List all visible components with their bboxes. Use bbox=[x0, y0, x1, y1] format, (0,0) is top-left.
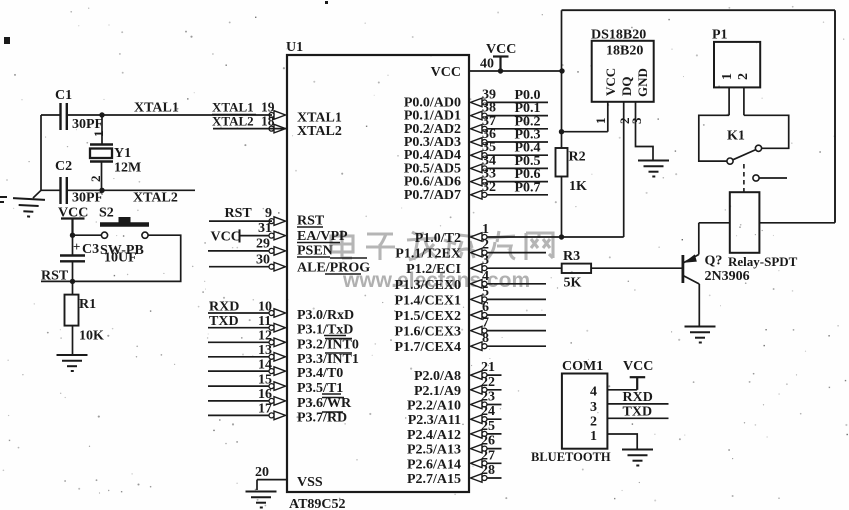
svg-text:C2: C2 bbox=[55, 159, 72, 174]
U1 P1.6 pin arrow (pin 7) bbox=[471, 326, 488, 335]
svg-text:P3.3/INT1: P3.3/INT1 bbox=[297, 352, 359, 367]
svg-text:30: 30 bbox=[256, 253, 270, 268]
U1 P1.3 pin arrow (pin 4) bbox=[471, 280, 488, 289]
capacitor C1 bbox=[61, 103, 67, 130]
svg-text:P1.1/T2EX: P1.1/T2EX bbox=[395, 247, 461, 262]
U1 PSEN pin arrow (pin 29) bbox=[269, 247, 286, 256]
capacitor C3 electrolytic bbox=[60, 256, 85, 262]
U1 P3.5 pin arrow (pin 15) bbox=[269, 382, 286, 391]
ground symbol COM1 bbox=[622, 450, 653, 466]
K1 common contact bbox=[727, 158, 733, 164]
wire stub U1 pin 13 (P3.3) bbox=[208, 356, 272, 358]
switch K1 contact frame left bbox=[699, 115, 729, 161]
wire stub U1 pin 8 (P1.7) bbox=[482, 345, 546, 347]
wire relay coil left to transistor bbox=[699, 222, 730, 224]
svg-text:27: 27 bbox=[481, 448, 495, 463]
wire right side of relay loop bbox=[834, 10, 836, 223]
svg-text:GND: GND bbox=[635, 68, 650, 97]
junction XTAL1-crystal bbox=[99, 112, 104, 117]
capacitor C2 bbox=[61, 177, 67, 204]
svg-text:P1.7/CEX4: P1.7/CEX4 bbox=[395, 340, 462, 355]
wire top of relay loop bbox=[562, 9, 836, 11]
svg-text:30PF: 30PF bbox=[72, 191, 103, 206]
switch K1 contact frame right bbox=[744, 115, 789, 148]
svg-text:U1: U1 bbox=[286, 40, 303, 55]
svg-text:P3.0/RxD: P3.0/RxD bbox=[297, 308, 354, 323]
wire stub U1 pin 32 net P0.7 bbox=[482, 194, 548, 196]
U1 P0.5 pin arrow (pin 34) bbox=[471, 164, 488, 173]
wire stub U1 pin 17 (P3.7) bbox=[208, 414, 272, 416]
wire stub U1 pin 29 PSEN bbox=[208, 250, 272, 252]
K1 NC contact bbox=[755, 145, 761, 151]
junction VCC-S2-C3 bbox=[70, 233, 75, 238]
svg-text:Q?: Q? bbox=[705, 254, 723, 269]
wire XTAL1 net (C1 to U1 pin 19) bbox=[67, 114, 273, 116]
U1 P0.1 pin arrow (pin 38) bbox=[471, 111, 488, 120]
svg-text:3: 3 bbox=[590, 400, 597, 415]
wire C1 left lead bbox=[41, 114, 61, 116]
svg-text:9: 9 bbox=[265, 206, 272, 221]
svg-text:+: + bbox=[73, 239, 80, 254]
wire relay coil right to loop bbox=[759, 222, 835, 224]
U1 P3.4 pin arrow (pin 14) bbox=[269, 367, 286, 376]
U1 P3.2 pin arrow (pin 12) bbox=[269, 338, 286, 347]
wire VSS down to ground bbox=[256, 480, 258, 490]
resistor R3 bbox=[562, 264, 591, 273]
svg-text:P2.4/A12: P2.4/A12 bbox=[407, 428, 461, 443]
wire stub U1 pin 27 (P2.6) bbox=[482, 462, 502, 464]
svg-text:XTAL1: XTAL1 bbox=[212, 100, 254, 115]
wire stub U1 pin 2 (P1.1) bbox=[482, 252, 546, 254]
svg-text:5: 5 bbox=[482, 284, 489, 299]
svg-text:VCC: VCC bbox=[623, 359, 653, 374]
svg-text:1K: 1K bbox=[569, 179, 587, 194]
negation bars on P3 labels bbox=[322, 336, 352, 413]
svg-text:31: 31 bbox=[258, 221, 272, 236]
U1 P0.4 pin arrow (pin 35) bbox=[471, 151, 488, 160]
wire stub U1 pin 28 (P2.7) bbox=[482, 477, 502, 479]
DS18B20 pin 3 lead to ground bbox=[636, 102, 654, 160]
svg-text:1: 1 bbox=[720, 73, 735, 80]
svg-text:VCC: VCC bbox=[603, 68, 618, 96]
U1 P3.3 pin arrow (pin 13) bbox=[269, 353, 286, 362]
svg-text:RXD: RXD bbox=[623, 390, 653, 405]
svg-text:P2.1/A9: P2.1/A9 bbox=[414, 384, 461, 399]
left rail C1-C2 to ground bbox=[40, 115, 42, 190]
svg-text:P3.4/T0: P3.4/T0 bbox=[297, 366, 343, 381]
U1 P0.6 pin arrow (pin 33) bbox=[471, 177, 488, 186]
wire stub U1 pin 36 net P0.3 bbox=[482, 141, 548, 143]
wire stub U1 pin 23 (P2.2) bbox=[482, 404, 502, 406]
svg-text:3: 3 bbox=[482, 253, 489, 268]
U1 P0.0 pin arrow (pin 39) bbox=[471, 98, 488, 107]
svg-text:17: 17 bbox=[258, 402, 272, 417]
U1 P0.7 pin arrow (pin 32) bbox=[471, 191, 488, 200]
svg-text:1: 1 bbox=[482, 222, 489, 237]
U1 XTAL2 pin arrow (pin 18) bbox=[269, 124, 286, 133]
relay coil Relay-SPDT body bbox=[730, 192, 760, 253]
svg-text:P2.6/A14: P2.6/A14 bbox=[407, 457, 461, 472]
svg-text:P1: P1 bbox=[712, 28, 728, 43]
wire VCC pin 40 of U1 bbox=[469, 70, 562, 72]
U1 P1.2 pin arrow (pin 3) bbox=[471, 264, 488, 273]
wire COM1 pin1 to ground bbox=[607, 434, 637, 449]
svg-text:10UF: 10UF bbox=[104, 251, 137, 266]
svg-text:BLUETOOTH: BLUETOOTH bbox=[531, 450, 611, 464]
resistor R2 bbox=[556, 148, 568, 177]
svg-text:2: 2 bbox=[590, 415, 597, 430]
svg-text:P2.0/A8: P2.0/A8 bbox=[414, 369, 461, 384]
svg-text:P1.3/CEX0: P1.3/CEX0 bbox=[395, 278, 462, 293]
svg-text:R2: R2 bbox=[569, 150, 586, 165]
svg-text:P1.2/ECI: P1.2/ECI bbox=[406, 262, 461, 277]
svg-text:P2.3/A11: P2.3/A11 bbox=[408, 413, 461, 428]
VCC rail vertical (R2 pullup rail) bbox=[561, 10, 563, 148]
wire COM1 pin4 to VCC bbox=[607, 389, 637, 391]
wire stub U1 pin 35 net P0.4 bbox=[482, 154, 548, 156]
svg-text:2: 2 bbox=[482, 238, 489, 253]
U1 P2.7 pin arrow (pin 28) bbox=[471, 474, 488, 483]
svg-text:P1.0/T2: P1.0/T2 bbox=[415, 231, 461, 246]
wire VCC to U1 pin 31 bbox=[240, 235, 273, 237]
svg-text:P3.2/INT0: P3.2/INT0 bbox=[297, 337, 359, 352]
wire stub U1 pin 15 (P3.5) bbox=[208, 385, 272, 387]
wire RST stub to U1 pin 9 bbox=[209, 220, 272, 222]
VCC power symbol at COM1 bbox=[630, 377, 646, 390]
wire R2 bottom to DQ node bbox=[561, 177, 563, 238]
wire stub U1 pin 14 (P3.4) bbox=[208, 370, 272, 372]
wire VCC to switch S2 bbox=[73, 234, 102, 236]
svg-text:TXD: TXD bbox=[209, 314, 239, 329]
junction R2 top wire to DS18B20 pin1 bbox=[559, 129, 564, 134]
svg-text:XTAL1: XTAL1 bbox=[134, 101, 179, 116]
U1 P3.7 pin arrow (pin 17) bbox=[269, 411, 286, 420]
wire stub U1 pin 11 (P3.1) bbox=[208, 327, 272, 329]
scan speck marks bbox=[0, 1, 328, 203]
wire COM1 pin2 TXD bbox=[607, 417, 668, 419]
U1 P1.4 pin arrow (pin 5) bbox=[471, 295, 488, 304]
VCC power symbol at pin 40 bbox=[493, 57, 509, 72]
U1 P3.1 pin arrow (pin 11) bbox=[269, 323, 286, 332]
svg-text:VSS: VSS bbox=[297, 475, 323, 490]
wire COM1 pin3 RXD bbox=[607, 403, 668, 405]
svg-text:RXD: RXD bbox=[209, 299, 239, 314]
svg-text:P1.5/CEX2: P1.5/CEX2 bbox=[395, 309, 462, 324]
wire stub U1 pin 21 (P2.0) bbox=[482, 374, 502, 376]
U1 P2.4 pin arrow (pin 25) bbox=[471, 430, 488, 439]
svg-text:P0.7/AD7: P0.7/AD7 bbox=[404, 188, 461, 203]
svg-text:VCC: VCC bbox=[211, 230, 241, 245]
svg-text:15: 15 bbox=[258, 372, 272, 387]
U1 P3.0 pin arrow (pin 10) bbox=[269, 309, 286, 318]
svg-text:Y1: Y1 bbox=[114, 146, 131, 161]
svg-text:R3: R3 bbox=[563, 249, 580, 264]
ground symbol reset bbox=[57, 355, 88, 371]
wire stub U1 pin 37 net P0.2 bbox=[482, 128, 548, 130]
wire stub U1 pin 5 (P1.4) bbox=[482, 298, 546, 300]
svg-text:20: 20 bbox=[255, 465, 269, 480]
svg-text:C1: C1 bbox=[55, 88, 72, 103]
svg-text:25: 25 bbox=[481, 419, 495, 434]
wire stub U1 pin 22 (P2.1) bbox=[482, 389, 502, 391]
wire stub U1 pin 33 net P0.6 bbox=[482, 181, 548, 183]
svg-text:P2.2/A10: P2.2/A10 bbox=[407, 399, 461, 414]
wire P1 pin1 lead bbox=[728, 87, 730, 115]
U1 ALE/PROG pin arrow (pin 30) bbox=[269, 262, 286, 271]
svg-text:S2: S2 bbox=[99, 206, 114, 221]
resistor R1 bbox=[72, 281, 74, 294]
U1 P1.1 pin arrow (pin 2) bbox=[471, 248, 488, 257]
svg-text:21: 21 bbox=[481, 360, 495, 375]
ground symbol at VSS bbox=[246, 492, 277, 508]
DS18B20 pin 2 lead (DQ) down to P1.0 wire bbox=[623, 102, 625, 237]
wire stub U1 pin 12 (P3.2) bbox=[208, 341, 272, 343]
svg-text:16: 16 bbox=[258, 387, 272, 402]
switch S2 push-button bbox=[100, 218, 149, 239]
svg-text:8: 8 bbox=[482, 331, 489, 346]
U1 P2.6 pin arrow (pin 27) bbox=[471, 459, 488, 468]
wire stub U1 pin 38 net P0.1 bbox=[482, 115, 548, 117]
wire stub U1 pin 20 VSS bbox=[257, 479, 287, 481]
junction XTAL2-crystal bbox=[99, 188, 104, 193]
svg-text:VCC: VCC bbox=[486, 42, 516, 57]
wire R3 to Q base bbox=[591, 267, 681, 269]
svg-text:10: 10 bbox=[258, 299, 272, 314]
ground symbol crystal caps bbox=[12, 198, 45, 217]
junction VCC rail bbox=[559, 68, 564, 73]
op-amp U1 body (AT89C52 MCU rectangle) bbox=[287, 55, 469, 492]
U1 P1.5 pin arrow (pin 6) bbox=[471, 311, 488, 320]
svg-text:32: 32 bbox=[482, 180, 496, 195]
wire stub U1 pin 26 (P2.5) bbox=[482, 448, 502, 450]
svg-text:18: 18 bbox=[261, 114, 275, 129]
wire stub U1 pin 34 net P0.5 bbox=[482, 167, 548, 169]
svg-text:40: 40 bbox=[480, 57, 494, 72]
wire C2 left lead bbox=[41, 189, 61, 191]
svg-text:XTAL2: XTAL2 bbox=[297, 124, 342, 139]
svg-text:VCC: VCC bbox=[431, 65, 461, 80]
U1 XTAL1 pin arrow (pin 19) bbox=[269, 111, 286, 120]
U1 P2.1 pin arrow (pin 22) bbox=[471, 386, 488, 395]
transistor Q? 2N3906 bbox=[683, 223, 699, 326]
wire stub U1 pin 1 (P1.0) bbox=[482, 236, 624, 238]
svg-text:P1.4/CEX1: P1.4/CEX1 bbox=[395, 293, 462, 308]
svg-text:2: 2 bbox=[736, 73, 751, 80]
wire stub U1 pin 24 (P2.3) bbox=[482, 418, 502, 420]
svg-text:26: 26 bbox=[481, 434, 495, 449]
svg-text:P2.7/A15: P2.7/A15 bbox=[407, 472, 461, 487]
svg-text:23: 23 bbox=[481, 390, 495, 405]
wire stub U1 pin 25 (P2.4) bbox=[482, 433, 502, 435]
svg-text:30PF: 30PF bbox=[72, 117, 103, 132]
wire S2 right side loop to RST bbox=[41, 235, 181, 281]
sensor DS18B20 body bbox=[592, 41, 654, 102]
connector P1 body bbox=[714, 42, 760, 88]
svg-text:10K: 10K bbox=[79, 329, 104, 344]
wire stub U1 pin 30 ALE/PROG bbox=[209, 266, 272, 268]
wire stub U1 pin 6 (P1.5) bbox=[482, 314, 546, 316]
svg-text:TXD: TXD bbox=[623, 405, 653, 420]
svg-text:12: 12 bbox=[258, 329, 272, 344]
svg-text:1: 1 bbox=[590, 429, 597, 444]
ground symbol DS18B20 bbox=[638, 161, 669, 177]
svg-text:4: 4 bbox=[590, 385, 597, 400]
svg-text:13: 13 bbox=[258, 343, 272, 358]
svg-text:P2.5/A13: P2.5/A13 bbox=[407, 443, 461, 458]
crystal Y1 bbox=[90, 115, 113, 190]
junction at VCC symbol bbox=[498, 68, 503, 73]
svg-text:24: 24 bbox=[481, 404, 495, 419]
svg-text:1: 1 bbox=[593, 118, 608, 125]
svg-text:RST: RST bbox=[225, 206, 253, 221]
svg-text:DQ: DQ bbox=[619, 77, 634, 97]
U1 P1.0 pin arrow (pin 1) bbox=[471, 233, 488, 242]
svg-text:22: 22 bbox=[481, 375, 495, 390]
U1 P1.7 pin arrow (pin 8) bbox=[471, 342, 488, 351]
svg-text:6: 6 bbox=[482, 300, 489, 315]
svg-text:3: 3 bbox=[629, 117, 644, 124]
wire R1 to ground bbox=[72, 326, 74, 354]
svg-text:C3: C3 bbox=[82, 242, 99, 257]
U1 P0.3 pin arrow (pin 36) bbox=[471, 138, 488, 147]
svg-text:P0.7: P0.7 bbox=[515, 180, 541, 195]
DS18B20 pin 1 lead bbox=[607, 102, 609, 132]
svg-text:R1: R1 bbox=[79, 297, 96, 312]
svg-text:5K: 5K bbox=[564, 276, 582, 291]
svg-text:1: 1 bbox=[91, 131, 106, 138]
wire VCC to DS18B20 pin 1 bbox=[562, 131, 608, 133]
svg-text:COM1: COM1 bbox=[562, 359, 603, 374]
svg-text:14: 14 bbox=[258, 357, 272, 372]
wire P1 pin2 lead bbox=[743, 87, 745, 115]
svg-text:RST: RST bbox=[41, 269, 69, 284]
svg-text:4: 4 bbox=[482, 269, 489, 284]
svg-text:P1.6/CEX3: P1.6/CEX3 bbox=[395, 325, 462, 340]
U1 P3.6 pin arrow (pin 16) bbox=[269, 397, 286, 406]
U1 RST pin arrow (pin 9) bbox=[269, 217, 286, 226]
connector COM1 body bbox=[562, 374, 608, 449]
U1 P2.5 pin arrow (pin 26) bbox=[471, 444, 488, 453]
U1 P2.0 pin arrow (pin 21) bbox=[471, 371, 488, 380]
K1 actuator dashed link bbox=[743, 164, 745, 192]
U1 P2.3 pin arrow (pin 24) bbox=[471, 415, 488, 424]
junction RST node bbox=[70, 279, 75, 284]
svg-text:Relay-SPDT: Relay-SPDT bbox=[728, 254, 798, 269]
junction P1.0 wire with R2 rail bbox=[559, 234, 564, 239]
svg-text:7: 7 bbox=[482, 316, 489, 331]
wire stub U1 pin 10 (P3.0) bbox=[208, 312, 272, 314]
svg-text:K1: K1 bbox=[727, 129, 745, 144]
wire XTAL2 net from C2 bbox=[67, 189, 195, 191]
svg-text:2: 2 bbox=[88, 176, 103, 183]
svg-text:18B20: 18B20 bbox=[606, 44, 643, 59]
wire XTAL2 stub to U1 pin 18 bbox=[213, 128, 287, 130]
svg-text:29: 29 bbox=[256, 237, 270, 252]
wire stub U1 pin 7 (P1.6) bbox=[482, 330, 546, 332]
wire stub U1 pin 3 (P1.2) bbox=[482, 267, 562, 269]
K1 NO contact with stub bbox=[753, 175, 759, 181]
svg-text:19: 19 bbox=[261, 100, 275, 115]
watermark graphic (elecfans) bbox=[331, 230, 553, 260]
svg-text:11: 11 bbox=[258, 314, 271, 329]
svg-text:AT89C52: AT89C52 bbox=[289, 497, 346, 510]
U1 P2.2 pin arrow (pin 23) bbox=[471, 400, 488, 409]
svg-text:12M: 12M bbox=[114, 161, 141, 176]
svg-text:2N3906: 2N3906 bbox=[705, 269, 750, 284]
svg-text:28: 28 bbox=[481, 463, 495, 478]
svg-text:XTAL2: XTAL2 bbox=[212, 114, 254, 129]
svg-text:XTAL2: XTAL2 bbox=[133, 191, 178, 206]
wire stub U1 pin 39 net P0.0 bbox=[482, 101, 548, 103]
U1 EA/VPP pin arrow (pin 31) bbox=[269, 231, 286, 240]
wire stub U1 pin 4 (P1.3) bbox=[482, 283, 546, 285]
ground symbol transistor bbox=[685, 327, 716, 343]
wire stub U1 pin 16 (P3.6) bbox=[208, 400, 272, 402]
U1 P0.2 pin arrow (pin 37) bbox=[471, 125, 488, 134]
K1 switch arm bbox=[733, 150, 756, 160]
